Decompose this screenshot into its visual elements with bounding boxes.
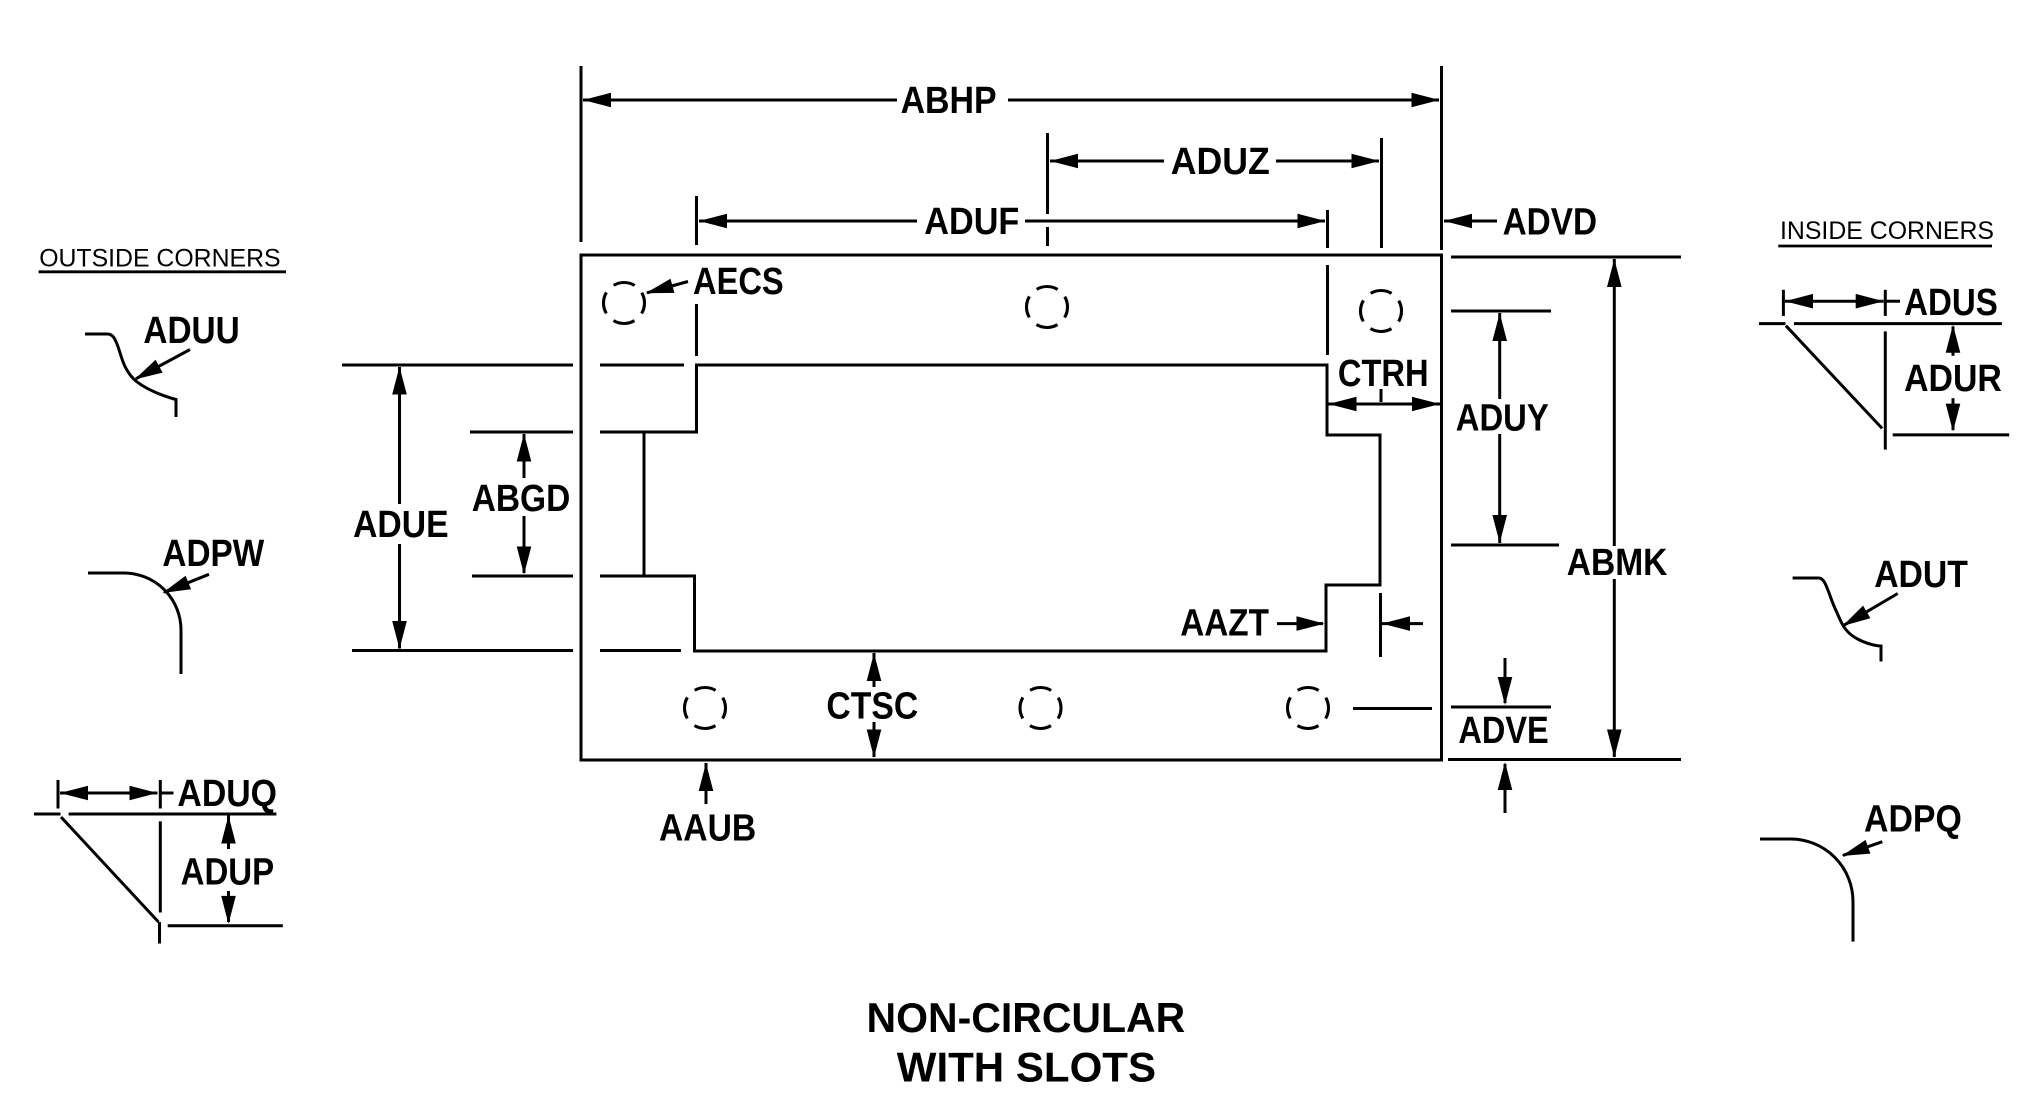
svg-text:AAUB: AAUB (659, 808, 756, 850)
dimension ADUE (342, 365, 684, 651)
corner figure ADUT (inside corner, broken edge) (1793, 554, 1968, 662)
dimension ADUF (697, 196, 1328, 356)
svg-text:ADVE: ADVE (1458, 710, 1548, 752)
part inner cutout outline with side slots (644, 365, 1380, 651)
dimension AAZT (slot notch width) (1180, 593, 1423, 657)
svg-text:ADUR: ADUR (1904, 358, 2002, 400)
svg-text:WITH SLOTS: WITH SLOTS (897, 1044, 1156, 1091)
corner figure ADUQ/ADUP (outside corner, chamfer) (34, 773, 283, 944)
svg-text:NON-CIRCULAR: NON-CIRCULAR (867, 994, 1186, 1041)
dimension ADVD (arrow at right edge) (1444, 202, 1597, 244)
svg-text:AAZT: AAZT (1180, 602, 1269, 644)
dimension ABGD (470, 432, 646, 576)
callout AECS (top-left slot) (646, 261, 784, 303)
svg-text:ABMK: ABMK (1567, 542, 1668, 584)
corner figure ADUS/ADUR (inside corner, chamfer) (1759, 282, 2009, 450)
svg-text:ADUT: ADUT (1874, 554, 1968, 596)
dimension ADVE (1353, 658, 1551, 813)
dimension ABHP (581, 66, 1442, 250)
svg-text:AECS: AECS (693, 261, 784, 303)
svg-text:ADUZ: ADUZ (1171, 141, 1270, 183)
heading INSIDE CORNERS (1778, 217, 1994, 246)
corner figure ADPW (outside corner, radius) (88, 533, 264, 674)
callout AAUB (bottom edge) (659, 763, 756, 850)
slot hole bottom-middle (1020, 688, 1061, 729)
svg-text:ADUQ: ADUQ (177, 773, 277, 815)
svg-text:ADPW: ADPW (162, 533, 264, 575)
svg-text:ADPQ: ADPQ (1864, 799, 1962, 841)
svg-text:CTSC: CTSC (826, 685, 918, 727)
svg-text:ADUS: ADUS (1904, 282, 1998, 324)
svg-text:OUTSIDE CORNERS: OUTSIDE CORNERS (39, 245, 280, 273)
dimension CTSC (bottom flange) (826, 653, 918, 758)
svg-text:ADUE: ADUE (353, 504, 449, 546)
svg-text:ADUY: ADUY (1456, 398, 1549, 440)
svg-text:ABGD: ABGD (472, 478, 571, 520)
svg-text:ADUF: ADUF (924, 201, 1019, 243)
slot hole bottom-right (1288, 688, 1329, 729)
dimension CTRH (1329, 353, 1441, 412)
slot hole bottom-left (685, 688, 726, 729)
dimension ADUZ (1048, 133, 1382, 248)
slot hole top-left (604, 283, 645, 324)
svg-text:INSIDE CORNERS: INSIDE CORNERS (1780, 217, 1994, 245)
corner figure ADUU (outside corner, broken edge) (85, 310, 240, 417)
heading OUTSIDE CORNERS (39, 245, 286, 273)
svg-text:ADUP: ADUP (181, 852, 275, 894)
corner figure ADPQ (inside corner, radius) (1760, 799, 1962, 942)
dimension ADUY (1451, 311, 1559, 545)
slot hole top-middle (1027, 287, 1068, 328)
svg-text:ABHP: ABHP (901, 80, 997, 122)
slot hole top-right (1361, 291, 1402, 332)
svg-text:ADUU: ADUU (143, 310, 239, 352)
dimension ABMK (overall height) (1448, 257, 1681, 760)
svg-text:ADVD: ADVD (1503, 202, 1598, 244)
svg-text:CTRH: CTRH (1338, 353, 1429, 395)
part outer rectangle (581, 255, 1442, 760)
